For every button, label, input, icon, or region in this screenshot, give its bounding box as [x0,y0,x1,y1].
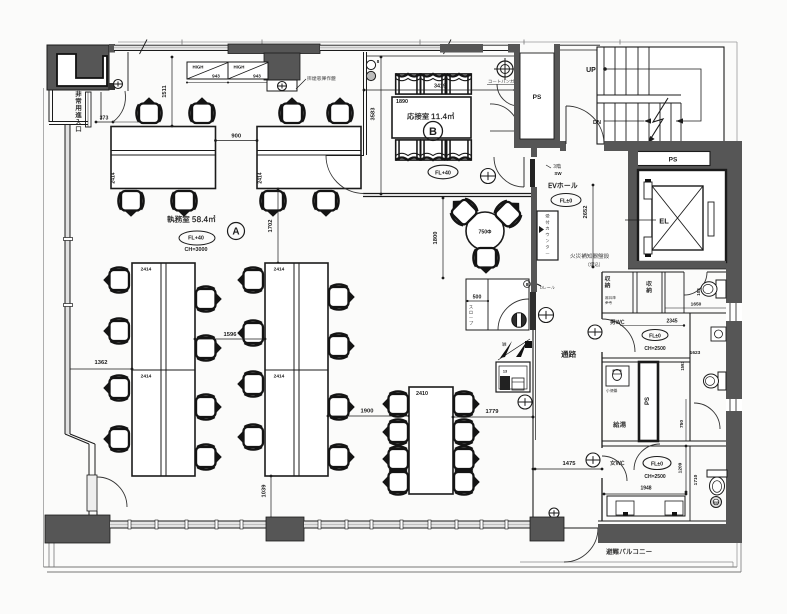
column circle [512,313,526,327]
svg-text:SW: SW [554,171,562,176]
toilet bottom [707,470,727,477]
dim 1948 [604,493,686,495]
balcony left riser [48,543,50,567]
svg-text:FL±0: FL±0 [649,333,661,339]
dim 1039 [270,476,272,518]
dim 1779 [453,416,533,418]
FL±0 ellipse EV [551,194,581,207]
washbasin MWC [711,327,726,341]
svg-text:1596: 1596 [224,332,238,338]
FL+40 ellipse (A) [179,231,215,245]
wall under storage [602,312,726,314]
dim 1362 [69,368,132,370]
left wall jog [65,434,89,444]
svg-text:2414: 2414 [141,267,152,273]
round table chairs [444,192,480,228]
chairs island R left [237,267,263,292]
sofas top [396,74,421,94]
label 3F SW [553,164,561,169]
outer eave line left [43,88,45,567]
small circles on wall [366,60,375,69]
round basin [711,497,722,508]
toilet top [716,280,726,298]
svg-text:103: 103 [696,288,701,296]
PS top walls [514,44,520,148]
svg-text:1362: 1362 [95,360,108,366]
chairs island R right [329,284,355,309]
pillar top-left (emergency entry) [47,45,109,90]
label EVホール [549,182,578,188]
label コートハンガー [489,79,519,83]
svg-text:3419: 3419 [434,84,446,90]
meeting room left wall [363,52,365,155]
left wall mullion ticks [64,238,73,241]
pillar top-center wide [228,44,320,54]
label 収納 2 [646,281,651,293]
dim 900 between desks [216,140,258,142]
label 収納 1 [605,276,610,288]
svg-text:1890: 1890 [396,99,408,105]
svg-text:PS: PS [533,94,542,101]
corridor wall line [532,330,534,518]
outer eave line right [736,42,738,567]
bottom window band 2 [304,521,530,528]
svg-text:1593: 1593 [680,361,685,371]
vestibule door upper [497,84,519,106]
section mark A [228,223,245,240]
label 執務室 58.4㎡ [167,215,215,222]
dim 1702 [277,189,279,263]
left wall lower [88,444,90,475]
right wall window 1 [726,303,742,321]
label 火災報知器盤設 [570,253,609,258]
outer eave line top [118,41,737,43]
svg-text:1209: 1209 [678,462,684,473]
dim 1800 [442,198,444,278]
EL door rail left bottom [644,237,652,254]
EL door rail right [708,202,714,236]
svg-text:1948: 1948 [640,486,651,492]
meeting room bottom wall [363,193,531,195]
svg-text:2414: 2414 [111,172,117,183]
HIGH cabinet [187,62,268,79]
main entry door arc [127,52,129,91]
label 応接室 11.4㎡ [407,113,454,120]
urinal stall [606,366,629,386]
EV hall left wall upper [531,143,537,157]
FL±0 ellipse WWC [643,457,671,470]
stair entry door [565,106,567,144]
svg-text:1800: 1800 [433,232,439,245]
svg-text:1650: 1650 [691,302,702,308]
desk island D1 [111,127,216,189]
vanity counter [607,496,685,516]
WC top wall [602,271,684,273]
stair outline [597,47,724,144]
svg-text:CH=2500: CH=2500 [644,346,665,352]
wall box under pillar [267,80,297,91]
label 女WC [610,460,624,465]
mid toilet room wall [689,313,691,441]
bottom pillar mid [266,517,304,541]
top wall segment C (dark) [508,44,520,53]
outlet WWC [586,453,600,467]
svg-text:PS: PS [645,397,651,405]
svg-text:FL+40: FL+40 [188,235,204,241]
mark 8 circle [524,281,531,288]
svg-text:FL±0: FL±0 [560,198,573,204]
svg-text:CH=2500: CH=2500 [644,474,665,480]
svg-text:900: 900 [231,134,241,140]
svg-text:550: 550 [713,501,719,505]
closet door [498,299,529,330]
top window band 1 [114,45,228,50]
meeting room inner top line [366,55,519,57]
meeting table 2410 [409,387,453,494]
coat hanger symbol [497,61,513,77]
emergency entry door [86,92,92,127]
wall below pillar [48,90,50,122]
window break slash [140,40,148,55]
section mark B [424,122,443,141]
PS shaft bottom [639,362,658,441]
svg-text:1039: 1039 [262,484,268,498]
wall y521 right [598,520,726,522]
stair guide line [603,67,607,71]
svg-text:373: 373 [100,116,109,122]
svg-text:3583: 3583 [371,107,377,121]
outlet bottom [549,508,559,518]
dim 1900 [328,415,409,417]
dim 1475 [535,468,602,470]
svg-text:PS: PS [669,157,678,164]
EL label [625,219,656,221]
svg-text:B: B [429,126,437,138]
svg-text:2652: 2652 [583,206,589,219]
svg-text:FL±0: FL±0 [651,462,663,468]
label 通路 [561,351,576,358]
toilet room door [634,444,660,470]
right outer wall [726,144,742,543]
wall y358 [602,357,690,359]
meeting table [392,97,471,138]
svg-text:1710: 1710 [693,474,699,485]
outlet symbol right of pillar [114,80,123,89]
DN arrow [604,120,644,122]
dim 1596 [195,338,265,340]
svg-text:943: 943 [253,74,261,79]
meeting room door [326,155,364,157]
WWC door [602,456,627,481]
svg-text:HIGH: HIGH [193,65,204,70]
chairs table right [454,391,480,416]
EL left wall strip [628,150,638,265]
svg-text:DN: DN [593,120,601,126]
label 給湯 [613,422,626,428]
chairs island L left [103,267,129,292]
top toilet door [684,272,707,295]
round table 750 [466,212,504,250]
stair steps upper [603,47,605,95]
svg-text:750: 750 [679,420,685,428]
outlet MWC [588,325,602,339]
note 排煙窓操作盤 [307,76,335,81]
svg-text:1702: 1702 [268,220,274,233]
bottom pillar left [45,515,110,543]
wall y441 [602,440,726,442]
stair break zigzag [648,98,668,143]
EV hall left wall lower [531,187,537,292]
svg-text:UP: UP [586,67,596,74]
chairs above desk D1 [136,97,161,123]
vestibule door lower [490,104,519,131]
bottom window ticks [128,520,131,529]
stair landing [597,94,681,96]
svg-text:EL: EL [659,217,669,226]
svg-text:2414: 2414 [258,172,264,183]
svg-text:500: 500 [473,295,482,301]
svg-text:FL+40: FL+40 [435,171,451,177]
svg-text:2410: 2410 [416,391,428,397]
FL±0 ellipse MWC [642,330,668,341]
chairs below desk D2 [260,191,285,217]
duct white L inside pillar [57,54,107,86]
EL shaft [638,170,726,262]
bottom window band 1 [110,521,266,528]
outlet corridor 1 [539,308,554,323]
label スロープ [469,305,473,325]
label 非常用進入口 [76,91,82,132]
dim 3419 [364,89,515,91]
svg-text:A: A [232,227,239,238]
EL door rail left top [644,182,652,199]
dim 3583 [380,57,382,194]
top window band 4 (stair side) [560,44,600,46]
WWC toilet divider [689,446,691,521]
left wall upper [65,125,70,435]
balcony door [564,528,598,562]
svg-text:1475: 1475 [563,461,577,467]
left exit door [87,475,97,511]
chairs above desk D2 [279,97,304,123]
window break slash 2 [444,40,452,55]
FL+40 ellipse (B) [428,165,458,179]
top window band 2 [320,45,440,50]
bottom pillar right [530,517,564,541]
closet room [466,279,529,330]
EL top band [628,150,726,170]
dim 1209 [685,446,687,492]
WC block left wall [601,272,603,319]
balcony outline bottom [44,566,738,568]
svg-text:13: 13 [503,370,507,374]
left wall to pillar [88,511,90,515]
desk island L [132,263,195,476]
dim 1511 [171,57,173,126]
desk island D2 [257,127,361,189]
desk island R [265,263,328,476]
PS label box [637,152,710,166]
MWC room door [602,319,635,352]
sofas bottom [396,140,421,160]
dim 373 [96,121,113,123]
copier unit [496,362,530,392]
svg-text:943: 943 [212,74,220,79]
bottom right wall [598,524,741,543]
svg-text:1511: 1511 [162,84,168,97]
svg-text:1779: 1779 [486,409,500,415]
svg-text:HIGH: HIGH [234,65,245,70]
PS top room [520,53,554,139]
outlet at EV door [481,169,496,184]
mid toilet door [694,403,720,429]
top window band 3 [483,44,512,46]
svg-text:2345: 2345 [666,319,677,325]
svg-text:1900: 1900 [361,409,374,415]
EL cab with X [652,186,703,250]
toilet mid [718,372,726,390]
label 避難バルコニー [606,548,651,554]
svg-text:750Φ: 750Φ [479,230,493,236]
chairs table left [382,391,408,416]
svg-text:2414: 2414 [274,374,285,380]
storage small text [605,296,616,299]
label Dレール [537,284,541,286]
leader to note [296,79,306,89]
right wall window 2 [726,399,742,411]
reception counter [537,211,558,260]
top wall segment B (dark) [440,44,483,53]
door office to EV hall [494,157,524,187]
stair steps lower [603,103,605,144]
chairs island L right [196,286,222,311]
wall band below stairs [560,141,566,151]
pillar top-center stem [264,53,300,80]
chairs below desk D1 [118,191,143,217]
svg-text:2414: 2414 [274,267,285,273]
svg-text:1623: 1623 [690,350,701,356]
dim 2652 [592,185,594,267]
top wall segment A (dark) [109,44,115,53]
EL bottom wall [628,261,726,269]
label 男WC [610,320,624,325]
svg-text:CH=3000: CH=3000 [185,247,208,253]
emergency entry inner jamb [100,92,102,120]
svg-text:2414: 2414 [141,374,152,380]
storage divider walls [632,272,634,313]
outlet near copier [518,395,532,409]
equipment marks above copier [500,341,512,358]
